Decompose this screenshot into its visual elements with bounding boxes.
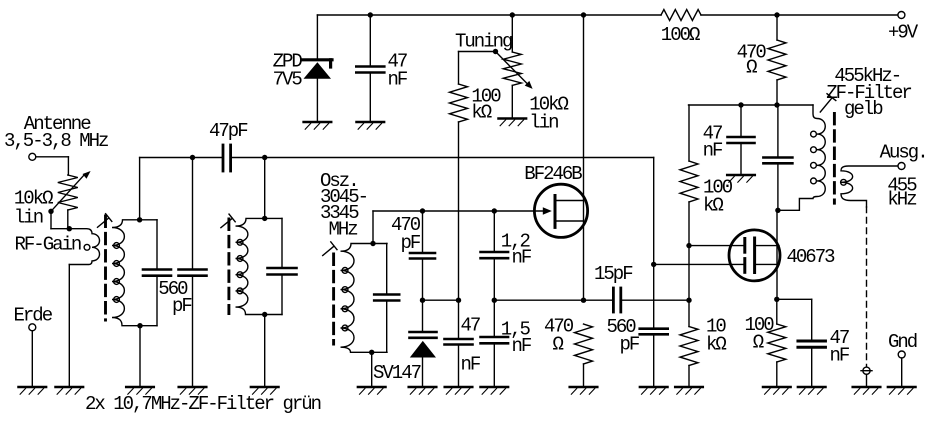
capacitor 1,5nF [481, 300, 509, 386]
label Osz. 3045-3345 MHz [320, 170, 367, 241]
transistor 40673 MOSFET [729, 230, 780, 281]
node source junction [581, 298, 586, 303]
node T1 bottom junction [137, 323, 142, 386]
node source line left junction [492, 298, 497, 303]
svg-text:MHz: MHz [329, 219, 358, 241]
svg-text:SV147: SV147 [373, 362, 421, 384]
wiper arrow antenna pot [48, 171, 90, 214]
ground T1 secondary [126, 387, 154, 394]
capacitor oscillator tank [374, 244, 399, 353]
transformer T1 secondary coil [112, 220, 157, 326]
label 47nF tuning filter [461, 315, 481, 376]
ground 10k [675, 387, 703, 394]
ground 470 source [570, 387, 598, 394]
label Antenne 3,5-3,8 MHz [4, 113, 108, 152]
svg-text:47pF: 47pF [209, 120, 248, 142]
wire varicap node segment [423, 298, 462, 303]
terminal Ausg [898, 163, 905, 170]
label 1,5 nF [501, 318, 532, 357]
wire G1 [654, 263, 745, 265]
wire RF line right segment [232, 157, 654, 159]
ground 47nF output [798, 387, 826, 394]
svg-text:Ω: Ω [746, 57, 757, 79]
label 1,2 nF [501, 230, 532, 268]
caption 2x 10,7MHz-ZF-Filter gruen [85, 393, 321, 415]
ground zener [304, 122, 332, 129]
wire top rail +9V right segment [701, 14, 898, 16]
label 560 pF [158, 278, 192, 317]
wire 100k right column [680, 105, 698, 327]
svg-text:100Ω: 100Ω [661, 24, 700, 46]
wire RF line left segment [140, 157, 222, 159]
ground oscillator [358, 387, 386, 394]
core T1 dashed [104, 216, 107, 320]
label RF-Gain [15, 233, 81, 255]
label 47 nF bias [703, 123, 723, 162]
wire gate line y211 [373, 210, 543, 212]
capacitor 47pF coupling [223, 145, 231, 171]
node G1 junction [651, 262, 656, 267]
svg-text:Gnd: Gnd [888, 331, 917, 353]
label BF246B [524, 163, 582, 185]
svg-text:pF: pF [401, 232, 421, 254]
svg-text:Ausg.: Ausg. [880, 141, 925, 163]
wire 15pF to G2 node [622, 299, 689, 301]
label 100 Ohm source [745, 314, 775, 353]
label 40673 [787, 246, 836, 268]
wire 40673 drain-source vertical [776, 210, 778, 299]
label 10k lin tuning [529, 94, 568, 134]
slug arrow T1 [98, 214, 112, 228]
capacitor 47nF tuning filter [445, 300, 473, 386]
transformer T1 primary coil [69, 229, 99, 386]
svg-text:kΩ: kΩ [703, 195, 723, 217]
slug arrow T3 [820, 94, 836, 112]
ground chassis [853, 387, 881, 394]
label Ausg 455 kHz [880, 141, 925, 210]
node 100 Ohm junction [774, 297, 779, 302]
node osc bottom junction [369, 350, 374, 386]
node varicap junction [420, 298, 425, 303]
svg-text:Erde: Erde [14, 304, 53, 326]
label Erde [14, 304, 53, 326]
wire bias line y105 [689, 104, 814, 106]
svg-text:pF: pF [620, 333, 640, 355]
node G2 junction [686, 243, 691, 248]
label 470 Ohm source [544, 316, 574, 356]
node source-10k junction [686, 298, 691, 303]
wire G1 column [653, 158, 655, 329]
node pot bottom junction [67, 226, 72, 231]
node rail-drain junction [581, 12, 586, 17]
svg-text:Tuning: Tuning [455, 30, 512, 52]
svg-text:RF-Gain: RF-Gain [15, 233, 81, 255]
svg-text:nF: nF [512, 335, 532, 357]
chassis symbol [861, 367, 872, 386]
varicap diode SV147 [410, 300, 437, 386]
svg-text:7V5: 7V5 [273, 69, 303, 91]
node bias-47nF junction [738, 102, 743, 107]
label 470 Ohm drain [737, 42, 767, 79]
wire osc to gate line [372, 211, 374, 244]
svg-text:gelb: gelb [844, 98, 883, 120]
label 455kHz-ZF-Filter gelb [826, 65, 911, 120]
svg-text:15pF: 15pF [594, 263, 633, 285]
label 15pF [594, 263, 633, 285]
zener diode ZPD 7V5 [303, 60, 332, 122]
node gate-470pF junction [420, 208, 425, 213]
wire wiper to coil junction [51, 211, 69, 228]
node RF line T2 junction [262, 155, 267, 160]
wiper arrow tuning pot [493, 49, 533, 89]
wire G2 [689, 245, 745, 247]
label 47nF supply [388, 51, 408, 91]
wire T2 top feed [262, 158, 267, 222]
transformer T3 primary coil [779, 105, 825, 210]
wire drain-source vertical [583, 15, 585, 300]
node T2 bottom junction [262, 312, 267, 386]
svg-text:kΩ: kΩ [471, 102, 491, 124]
node osc top junction [370, 241, 375, 246]
node T3 bottom junction [775, 208, 780, 213]
capacitor 47nF supply [356, 15, 384, 122]
ground 47nF supply [357, 122, 385, 129]
label 10 kOhm [706, 316, 726, 356]
label 100k tuning [471, 86, 501, 124]
label 100 Ohm [661, 24, 700, 46]
capacitor 470pF [410, 211, 435, 300]
ground T2 [251, 387, 279, 394]
label 47pF [209, 120, 248, 142]
svg-text:kHz: kHz [887, 189, 916, 211]
wire wiper to 100k [459, 51, 496, 53]
svg-text:BF246B: BF246B [524, 163, 582, 185]
capacitor 15pF [613, 288, 620, 312]
wire to 47nF output [777, 299, 812, 341]
ground T1 primary [56, 387, 84, 394]
core T2 dashed [227, 219, 230, 314]
capacitor 560pF G1 [640, 329, 668, 386]
ground 100 Ohm source [763, 387, 791, 394]
slug arrow T2 [221, 214, 235, 228]
node bias-470 junction [774, 102, 779, 107]
wire source line to 15pF [494, 299, 612, 301]
ground Gnd terminal [888, 387, 916, 394]
transistor BF246B JFET [534, 184, 587, 237]
resistor 100 Ohm supply [661, 10, 701, 21]
svg-text:Ω: Ω [553, 333, 564, 355]
svg-text:kΩ: kΩ [706, 333, 726, 355]
svg-text:nF: nF [388, 69, 408, 91]
transformer T2 coil [236, 218, 283, 314]
label Gnd [888, 331, 917, 353]
svg-text:47: 47 [461, 315, 480, 337]
ground 560pF G1 [640, 387, 668, 394]
capacitor 560pF first [143, 220, 171, 326]
potentiometer 10k lin RF-Gain [58, 175, 78, 229]
label SV147 [373, 362, 421, 384]
terminal Gnd [898, 351, 905, 386]
potentiometer Tuning 10k lin [503, 15, 521, 117]
ground 1,5nF [481, 387, 509, 394]
svg-text:Ω: Ω [753, 331, 764, 353]
svg-text:nF: nF [512, 246, 532, 268]
core oscillator coil dashed [332, 254, 335, 344]
node rail-470 junction [774, 12, 779, 17]
transformer T3 secondary coil [841, 166, 898, 207]
resistor 470 Ohm drain [768, 15, 786, 105]
svg-text:40673: 40673 [787, 246, 836, 268]
svg-text:2x 10,7MHz-ZF-Filter grün: 2x 10,7MHz-ZF-Filter grün [85, 393, 321, 415]
label 47 nF output [830, 327, 850, 367]
resistor 470 Ohm source [575, 324, 593, 386]
svg-text:nF: nF [703, 140, 723, 162]
node RF line 560pF junction [190, 155, 195, 160]
svg-text:nF: nF [830, 345, 850, 367]
wire shield dashed [866, 207, 868, 367]
svg-text:lin: lin [14, 207, 43, 229]
ground 560pF second [179, 387, 207, 394]
resistor 100k tuning [450, 52, 468, 301]
svg-text:3,5-3,8 MHz: 3,5-3,8 MHz [4, 130, 108, 152]
node rail-pot junction [510, 12, 515, 17]
ground tuning pot [499, 119, 527, 126]
label ZPD 7V5 [273, 51, 303, 91]
label 560 pF G1 [607, 316, 640, 355]
capacitor 1,2nF [481, 211, 509, 300]
ground 47nF tuning filter [445, 387, 473, 394]
core T3 dashed [833, 113, 836, 203]
label 100 kOhm right [703, 177, 733, 217]
wire top rail +9V left segment [317, 14, 661, 16]
capacitor 47nF bias [728, 105, 755, 175]
label 10k lin antenna [14, 187, 53, 228]
svg-text:nF: nF [461, 354, 481, 376]
terminal Erde [29, 324, 36, 386]
svg-text:+9V: +9V [888, 22, 919, 44]
wire T1 secondary to RF line [137, 158, 142, 223]
capacitor T2 tank [268, 218, 297, 314]
wire antenna to pot [36, 157, 69, 175]
node gate-1,2nF junction [492, 208, 497, 213]
node rail-47nF junction [368, 12, 373, 17]
svg-text:pF: pF [172, 295, 192, 317]
resistor 10k [680, 327, 698, 387]
ground Erde [19, 387, 47, 394]
slug arrow oscillator [323, 242, 337, 256]
ground varicap [409, 387, 437, 394]
resistor 100 Ohm source [768, 299, 786, 386]
label 470 pF [391, 214, 421, 254]
capacitor 560pF second [179, 158, 207, 387]
label Tuning [455, 30, 512, 52]
wire zener branch top [316, 15, 318, 58]
capacitor T3 tank [763, 105, 792, 210]
inductor oscillator coil [341, 244, 388, 353]
ground 47nF bias [727, 175, 755, 182]
terminal Antenne [29, 153, 36, 160]
capacitor 47nF output [798, 341, 826, 386]
terminal +9V [888, 12, 919, 44]
svg-text:lin: lin [529, 111, 558, 133]
